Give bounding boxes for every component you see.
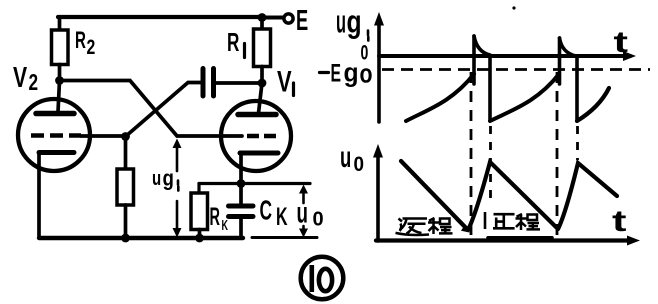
figure number 10 (circled) <box>301 257 344 300</box>
capacitor C coupling: right plate <box>211 69 216 97</box>
tube V1 grid (dashed) <box>247 134 277 139</box>
svg-text:g: g <box>344 59 359 88</box>
svg-text:o: o <box>360 60 373 90</box>
dashed -Eg0 level line <box>382 68 650 71</box>
terminal E (open circle) <box>284 14 293 23</box>
ug1 waveform spike 1 <box>472 36 476 84</box>
svg-text:2: 2 <box>87 35 96 59</box>
ug1 waveform rise 1 <box>406 74 474 121</box>
svg-text:V: V <box>13 62 27 94</box>
svg-text:t: t <box>614 25 628 59</box>
ug1 measure arrow (grid voltage) <box>176 143 179 171</box>
tube V2 anode <box>36 111 74 117</box>
u0 waveform <box>401 161 617 230</box>
ug1 waveform drop 2 <box>575 57 579 121</box>
dashed vertical 4 (under drop 2) <box>576 126 579 160</box>
speck <box>512 6 515 9</box>
node Rg bottom <box>121 234 130 243</box>
svg-text:R: R <box>210 204 221 231</box>
svg-text:u: u <box>336 5 346 40</box>
node cathode junction V1 <box>237 179 246 188</box>
wire cross-couple A: V2 anode to V1 grid <box>60 81 243 137</box>
tube V2 cathode <box>39 150 74 155</box>
svg-text:K: K <box>222 217 229 234</box>
dashed vertical 1 (retrace start) <box>470 72 473 236</box>
svg-text:g: g <box>347 4 362 40</box>
label -Eg0 <box>320 71 329 74</box>
u0 measure bottom tick <box>252 236 317 239</box>
tube V1 anode <box>238 112 276 118</box>
ug1 waveform rise 3 (partial) <box>577 88 609 121</box>
label 返程 (retrace) <box>396 219 430 236</box>
wire cap to V1 anode node <box>216 81 262 85</box>
svg-text:E: E <box>331 60 342 88</box>
top plot x axis (0 level) <box>379 54 630 58</box>
top plot y axis <box>377 25 381 122</box>
svg-text:C: C <box>260 194 273 225</box>
wire down to RK <box>197 184 200 194</box>
tube V2 anode lead <box>58 81 60 113</box>
axis thickening under text <box>488 236 552 240</box>
tube V2 envelope <box>18 99 90 171</box>
svg-text:0: 0 <box>354 153 365 176</box>
bottom plot y axis <box>376 157 380 241</box>
wire V1 cathode lead down <box>239 153 243 183</box>
wire V2 cathode to bottom rail <box>37 153 41 239</box>
arrow from 返程 to valley <box>457 220 467 230</box>
bottom rail (cathode bus) <box>39 236 243 240</box>
node V1 anode junction <box>258 79 267 88</box>
wire CK to bottom rail <box>239 219 243 238</box>
wire node to CK <box>239 184 243 204</box>
tube V1 anode lead <box>259 83 263 113</box>
wire top supply rail <box>58 15 262 19</box>
svg-text:0: 0 <box>313 208 324 230</box>
ug1 waveform drop 1 <box>488 57 492 121</box>
ug1 waveform rise 2 <box>490 74 559 121</box>
svg-text:u: u <box>340 142 351 174</box>
node V2 grid junction <box>121 132 130 141</box>
svg-text:t: t <box>612 204 626 238</box>
capacitor CK top plate <box>229 204 254 209</box>
resistor RK <box>191 193 208 230</box>
node V2 anode junction <box>55 76 64 85</box>
dashed vertical 3 (second retrace) <box>556 72 559 236</box>
svg-text:E: E <box>296 5 308 37</box>
capacitor C coupling: left plate <box>201 69 206 97</box>
node RK bottom <box>195 234 204 243</box>
resistor R1 <box>260 18 264 30</box>
tube V1 envelope <box>221 101 291 171</box>
wire cathode node horizontal <box>199 182 310 185</box>
svg-text:g: g <box>163 167 174 191</box>
resistor Rg (V2 grid resistor) <box>124 137 128 170</box>
svg-text:2: 2 <box>29 71 39 96</box>
label 正程 (forward trace) <box>493 214 515 228</box>
svg-text:K: K <box>276 204 288 231</box>
tube V1 cathode <box>240 151 278 156</box>
bottom plot x axis <box>376 238 633 242</box>
resistor R2 <box>58 17 62 30</box>
wire V2 grid out to node <box>81 134 126 138</box>
svg-text:u: u <box>152 167 161 190</box>
node junction rail/R1 <box>258 13 267 22</box>
wire junction to terminal E <box>262 16 284 20</box>
tube V2 grid (dashed) <box>31 133 81 138</box>
svg-text:R: R <box>227 27 239 57</box>
capacitor CK bottom plate <box>229 214 254 219</box>
svg-text:R: R <box>75 28 86 54</box>
u0 measure arrow down <box>302 226 305 232</box>
ug1 waveform spike 2 <box>558 38 562 84</box>
dashed vertical 2 (under drop 1) <box>489 126 492 205</box>
wire cross-couple B: V2 grid to coupling cap <box>126 83 202 137</box>
svg-text:V: V <box>277 64 292 98</box>
u0 measure arrow up <box>302 189 305 203</box>
